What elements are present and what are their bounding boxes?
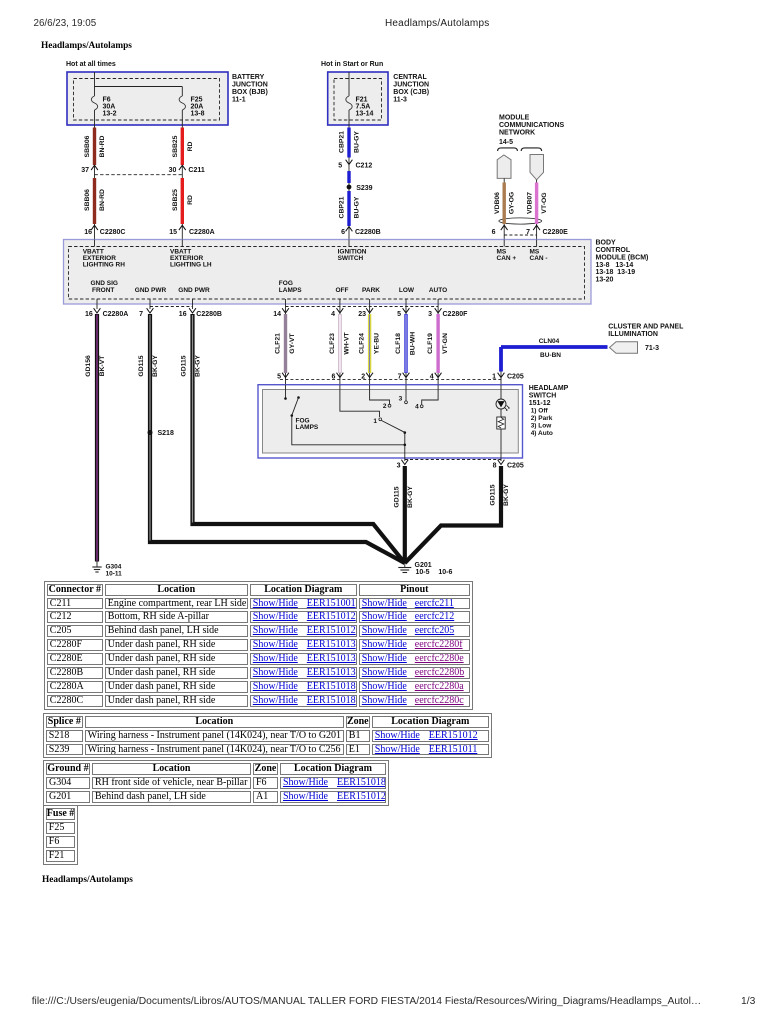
svg-text:SWITCH: SWITCH [338, 255, 364, 262]
svg-text:WH-VT: WH-VT [344, 332, 351, 355]
svg-text:13-18 13-19: 13-18 13-19 [596, 269, 636, 276]
svg-text:CENTRAL: CENTRAL [393, 74, 427, 81]
svg-text:VDB07: VDB07 [526, 192, 533, 214]
svg-text:SBB06: SBB06 [84, 135, 91, 157]
svg-text:C2280F: C2280F [443, 311, 469, 318]
svg-text:GD115: GD115 [393, 486, 400, 507]
svg-text:VT-GN: VT-GN [442, 333, 449, 354]
svg-text:C211: C211 [188, 167, 204, 174]
svg-text:3: 3 [397, 463, 401, 470]
svg-text:4) Auto: 4) Auto [531, 430, 553, 437]
svg-text:NETWORK: NETWORK [499, 130, 535, 137]
svg-text:VT-OG: VT-OG [541, 192, 548, 213]
svg-text:JUNCTION: JUNCTION [232, 82, 268, 89]
svg-text:LAMPS: LAMPS [279, 287, 302, 294]
svg-text:CLN04: CLN04 [539, 338, 560, 345]
svg-text:AUTO: AUTO [429, 287, 447, 294]
svg-text:C2280C: C2280C [100, 229, 126, 236]
svg-text:C212: C212 [356, 163, 373, 170]
svg-text:F21: F21 [356, 97, 368, 104]
svg-text:13-8 13-14: 13-8 13-14 [596, 262, 634, 269]
svg-text:7: 7 [139, 311, 143, 318]
svg-text:F6: F6 [103, 97, 111, 104]
svg-text:BOX (BJB): BOX (BJB) [232, 89, 268, 96]
svg-text:20A: 20A [191, 104, 204, 111]
svg-text:C2280E: C2280E [543, 229, 569, 236]
svg-text:4: 4 [415, 404, 419, 411]
svg-text:CLUSTER AND PANEL: CLUSTER AND PANEL [608, 324, 684, 331]
svg-text:3) Low: 3) Low [531, 423, 553, 430]
svg-text:14: 14 [273, 311, 281, 318]
svg-text:GD115: GD115 [138, 355, 145, 376]
svg-text:RD: RD [187, 142, 194, 152]
svg-text:BK-GY: BK-GY [152, 355, 159, 377]
svg-text:BU-BN: BU-BN [540, 352, 561, 359]
svg-text:LIGHTING RH: LIGHTING RH [83, 262, 126, 269]
svg-text:MODULE: MODULE [499, 115, 530, 122]
svg-text:LIGHTING LH: LIGHTING LH [170, 262, 212, 269]
svg-text:SBB06: SBB06 [84, 189, 91, 211]
svg-text:4: 4 [331, 311, 335, 318]
svg-text:COMMUNICATIONS: COMMUNICATIONS [499, 122, 565, 129]
svg-text:71-3: 71-3 [645, 345, 659, 352]
svg-text:CLF18: CLF18 [395, 333, 402, 354]
svg-text:SBB25: SBB25 [172, 189, 179, 211]
svg-text:Hot at all times: Hot at all times [66, 61, 116, 68]
svg-text:C2280B: C2280B [196, 311, 222, 318]
svg-text:LOW: LOW [399, 287, 415, 294]
svg-text:11-1: 11-1 [232, 97, 246, 104]
svg-text:C2280A: C2280A [189, 229, 215, 236]
svg-text:10-6: 10-6 [438, 569, 452, 576]
svg-text:6: 6 [341, 229, 345, 236]
svg-text:F25: F25 [191, 97, 203, 104]
svg-text:RD: RD [187, 195, 194, 205]
svg-text:13-20: 13-20 [596, 277, 614, 284]
svg-text:CLF24: CLF24 [359, 333, 366, 354]
svg-text:16: 16 [84, 229, 92, 236]
svg-text:11-3: 11-3 [393, 97, 407, 104]
svg-text:YE-BU: YE-BU [373, 333, 380, 354]
svg-text:14-5: 14-5 [499, 139, 513, 146]
svg-text:7.5A: 7.5A [356, 104, 371, 111]
svg-text:13-14: 13-14 [356, 111, 374, 118]
svg-text:VDB06: VDB06 [494, 192, 501, 214]
svg-text:PARK: PARK [362, 287, 380, 294]
svg-text:GND PWR: GND PWR [135, 287, 167, 294]
svg-text:1) Off: 1) Off [531, 408, 549, 415]
svg-text:BOX (CJB): BOX (CJB) [393, 89, 429, 96]
svg-text:ILLUMINATION: ILLUMINATION [608, 331, 658, 338]
svg-text:5: 5 [338, 163, 342, 170]
svg-text:G304: G304 [106, 564, 122, 571]
svg-text:S218: S218 [158, 430, 174, 437]
svg-text:30: 30 [169, 167, 177, 174]
svg-text:CLF19: CLF19 [427, 333, 434, 354]
svg-text:23: 23 [358, 311, 366, 318]
svg-text:GND PWR: GND PWR [178, 287, 210, 294]
svg-text:151-12: 151-12 [529, 400, 551, 407]
svg-text:13-8: 13-8 [191, 111, 205, 118]
svg-text:G201: G201 [415, 562, 432, 569]
svg-text:13-2: 13-2 [103, 111, 117, 118]
svg-text:GD115: GD115 [181, 355, 188, 376]
svg-text:GD115: GD115 [490, 484, 497, 505]
svg-text:FRONT: FRONT [92, 287, 114, 294]
svg-text:3: 3 [428, 311, 432, 318]
svg-text:HEADLAMP: HEADLAMP [529, 385, 569, 392]
svg-text:BATTERY: BATTERY [232, 74, 265, 81]
svg-text:2: 2 [383, 403, 387, 410]
svg-text:BU-GY: BU-GY [354, 196, 361, 218]
svg-text:3: 3 [399, 396, 403, 403]
svg-text:2) Park: 2) Park [531, 415, 553, 422]
svg-text:15: 15 [169, 229, 177, 236]
svg-text:BK-GY: BK-GY [503, 484, 510, 506]
svg-text:1: 1 [373, 418, 377, 425]
svg-text:30A: 30A [103, 104, 116, 111]
svg-text:S239: S239 [356, 185, 372, 192]
svg-text:BN-RD: BN-RD [99, 135, 106, 157]
svg-text:SBB25: SBB25 [172, 135, 179, 157]
svg-text:37: 37 [81, 167, 89, 174]
svg-text:5: 5 [397, 311, 401, 318]
svg-text:BU-GY: BU-GY [354, 131, 361, 153]
svg-text:BK-GY: BK-GY [194, 355, 201, 377]
svg-text:GY-OG: GY-OG [509, 192, 516, 214]
svg-text:C2280B: C2280B [355, 229, 381, 236]
svg-text:C205: C205 [507, 463, 524, 470]
svg-text:16: 16 [179, 311, 187, 318]
svg-text:MODULE (BCM): MODULE (BCM) [596, 254, 649, 261]
svg-text:16: 16 [85, 311, 93, 318]
svg-text:BK-VT: BK-VT [99, 355, 106, 377]
svg-text:6: 6 [492, 229, 496, 236]
svg-text:GY-VT: GY-VT [289, 332, 296, 353]
svg-text:JUNCTION: JUNCTION [393, 82, 429, 89]
svg-text:BODY: BODY [596, 240, 617, 247]
svg-text:C2280A: C2280A [103, 311, 129, 318]
svg-text:CLF21: CLF21 [275, 333, 282, 354]
svg-text:BU-WH: BU-WH [410, 332, 417, 355]
svg-text:CBP21: CBP21 [339, 131, 346, 153]
svg-text:CAN -: CAN - [530, 255, 548, 262]
svg-text:LAMPS: LAMPS [296, 424, 319, 431]
svg-text:Hot in Start or Run: Hot in Start or Run [321, 61, 383, 68]
svg-text:CLF23: CLF23 [329, 333, 336, 354]
svg-text:C205: C205 [507, 373, 524, 380]
svg-text:10-11: 10-11 [106, 571, 123, 578]
svg-text:BN-RD: BN-RD [99, 189, 106, 211]
svg-text:GD156: GD156 [85, 355, 92, 377]
svg-text:CAN +: CAN + [497, 255, 517, 262]
svg-text:10-5: 10-5 [416, 569, 430, 576]
svg-text:BK-GY: BK-GY [407, 486, 414, 508]
svg-text:CONTROL: CONTROL [596, 247, 631, 254]
svg-text:CBP21: CBP21 [339, 196, 346, 218]
svg-text:SWITCH: SWITCH [529, 393, 557, 400]
svg-text:OFF: OFF [336, 287, 349, 294]
svg-text:8: 8 [493, 463, 497, 470]
